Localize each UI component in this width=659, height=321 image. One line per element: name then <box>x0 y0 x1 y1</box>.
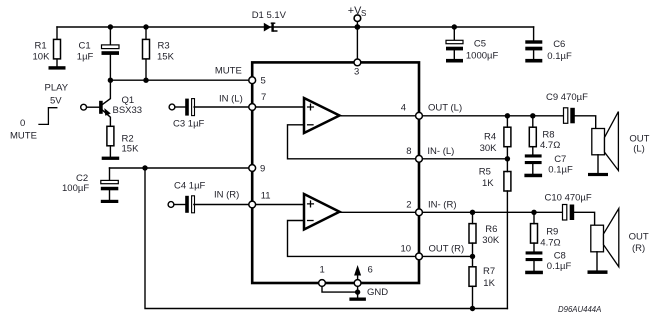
svg-text:PLAY: PLAY <box>45 83 69 94</box>
junction pin9 line <box>142 165 147 170</box>
svg-text:1K: 1K <box>482 178 494 189</box>
svg-text:15K: 15K <box>122 144 140 155</box>
wire op-amp R output to pin2 and IN-(R) line <box>340 211 563 213</box>
capacitor C6 <box>525 27 572 63</box>
transistor Q1 <box>81 80 142 126</box>
svg-text:OUT (L): OUT (L) <box>428 103 462 114</box>
resistor R4 <box>480 116 511 159</box>
input terminal IN (L) <box>169 104 175 110</box>
svg-text:2: 2 <box>406 200 411 211</box>
svg-text:C8: C8 <box>554 251 566 262</box>
wire input R <box>174 204 185 206</box>
op-amp A1 (left channel) <box>304 98 340 133</box>
junction top rail at C5 <box>452 24 457 29</box>
svg-text:7: 7 <box>261 92 266 103</box>
junction gnd node <box>355 289 360 294</box>
wire pins 1,6 to ground <box>322 287 358 298</box>
svg-text:OUT: OUT <box>629 232 649 243</box>
svg-text:(L): (L) <box>633 144 645 155</box>
wire Vs to pin 3 <box>356 27 358 62</box>
svg-text:MUTE: MUTE <box>215 66 242 77</box>
svg-text:10K: 10K <box>33 51 51 62</box>
capacitor C3 <box>173 93 243 129</box>
wire pin9 line <box>110 167 253 169</box>
capacitor C7 <box>524 154 573 177</box>
svg-text:30K: 30K <box>480 143 498 154</box>
resistor R6 <box>469 212 500 256</box>
junction IN-(L) at R4/R5 <box>505 156 510 161</box>
pin 9 <box>249 163 265 174</box>
svg-text:D1 5.1V: D1 5.1V <box>252 10 287 21</box>
svg-text:OUT (R): OUT (R) <box>429 244 465 255</box>
svg-text:R7: R7 <box>483 266 495 277</box>
svg-text:6: 6 <box>368 265 373 276</box>
pin 1 <box>319 265 326 287</box>
svg-text:MUTE: MUTE <box>10 131 37 142</box>
ground <box>349 287 388 301</box>
svg-text:15K: 15K <box>157 51 175 62</box>
svg-text:IN (R): IN (R) <box>214 190 239 201</box>
svg-text:0.1µF: 0.1µF <box>548 165 573 176</box>
svg-text:D96AU444A: D96AU444A <box>558 305 601 314</box>
wire op-amp L feedback <box>288 125 508 159</box>
input terminal IN (R) <box>168 202 174 208</box>
junction bottom rail at R7 <box>470 306 475 311</box>
play/mute waveform <box>10 83 69 142</box>
svg-text:R9: R9 <box>546 227 558 238</box>
junction mute line at Q1 <box>108 78 113 83</box>
wire C3 to pin7 <box>194 106 304 108</box>
capacitor C1 <box>77 27 119 80</box>
svg-text:1000µF: 1000µF <box>466 50 499 61</box>
svg-text:R5: R5 <box>479 167 491 178</box>
junction top rail at C1 <box>108 24 113 29</box>
svg-text:C6: C6 <box>553 39 565 50</box>
svg-text:R8: R8 <box>542 130 554 141</box>
junction OUT(L) at R4 <box>505 113 510 118</box>
svg-text:4.7Ω: 4.7Ω <box>540 140 560 151</box>
junction top rail at R3 <box>143 24 148 29</box>
svg-text:1: 1 <box>320 265 325 276</box>
svg-text:8: 8 <box>406 146 411 157</box>
svg-text:11: 11 <box>261 190 271 201</box>
wire top supply rail <box>57 26 534 28</box>
svg-text:IN- (L): IN- (L) <box>427 146 454 157</box>
junction OUT(R) at R6/R7 <box>470 254 475 259</box>
svg-text:R6: R6 <box>485 224 497 235</box>
pin 2 <box>406 200 456 216</box>
resistor R9 <box>531 212 561 251</box>
junction OUT(L) at R8 <box>530 113 535 118</box>
svg-text:C1: C1 <box>79 41 91 52</box>
resistor R5 <box>479 159 511 309</box>
svg-text:100µF: 100µF <box>62 183 89 194</box>
svg-text:GND: GND <box>367 287 388 298</box>
wire C4 to pin11 <box>194 204 304 206</box>
pin 4 <box>401 103 462 120</box>
pin 10 <box>401 244 465 260</box>
junction mute line at R3 <box>143 78 148 83</box>
pin 7 <box>249 92 266 110</box>
svg-text:IN- (R): IN- (R) <box>428 200 457 211</box>
svg-text:C10 470µF: C10 470µF <box>545 193 592 204</box>
capacitor C10 <box>545 193 592 221</box>
svg-text:BSX33: BSX33 <box>113 105 143 116</box>
svg-text:C4 1µF: C4 1µF <box>174 181 206 192</box>
resistor R8 <box>529 116 560 155</box>
capacitor C2 <box>62 168 118 203</box>
svg-text:S: S <box>361 9 366 18</box>
svg-text:10: 10 <box>401 244 412 255</box>
junction IN-(R) at R6 <box>470 210 475 215</box>
svg-text:0.1µF: 0.1µF <box>547 261 572 272</box>
svg-text:3: 3 <box>354 66 359 77</box>
svg-text:30K: 30K <box>482 235 500 246</box>
wire op-amp R feedback to pin10 and OUT(R) line <box>288 221 473 257</box>
svg-text:R3: R3 <box>158 41 170 52</box>
resistor R1 <box>33 27 66 70</box>
svg-text:IN (L): IN (L) <box>219 93 243 104</box>
pin 6 <box>354 265 373 287</box>
+Vs terminal <box>348 5 367 27</box>
svg-text:9: 9 <box>260 163 265 174</box>
pin 11 <box>249 190 271 208</box>
wire MUTE line <box>110 79 252 81</box>
svg-text:C3 1µF: C3 1µF <box>173 118 205 129</box>
junction top rail at Vs <box>355 24 361 30</box>
wire op-amp L output to pin4 and OUT(L) line <box>340 115 564 117</box>
pin 3 <box>354 59 361 77</box>
op-amp A2 (right channel) <box>304 194 340 230</box>
resistor R3 <box>143 27 175 80</box>
zener diode D1 <box>252 10 287 32</box>
wire C2 node to bottom rail <box>145 168 507 309</box>
svg-text:1µF: 1µF <box>77 51 94 62</box>
resistor R2 <box>102 126 139 160</box>
capacitor C5 <box>446 27 499 63</box>
pin 5 <box>215 66 266 87</box>
svg-text:+V: +V <box>348 5 362 17</box>
svg-text:R1: R1 <box>35 41 47 52</box>
capacitor C9 <box>546 92 588 123</box>
junction IN-(R) at R9 <box>531 210 536 215</box>
svg-text:1K: 1K <box>483 278 495 289</box>
svg-text:0: 0 <box>20 118 25 129</box>
svg-text:4.7Ω: 4.7Ω <box>540 238 560 249</box>
wire C10 to speaker R <box>574 212 594 225</box>
pin 8 <box>406 146 454 162</box>
speaker OUT (R) <box>588 209 649 274</box>
svg-text:4: 4 <box>401 103 406 114</box>
svg-text:5V: 5V <box>50 96 62 107</box>
svg-text:(R): (R) <box>632 243 645 254</box>
speaker OUT (L) <box>588 112 650 176</box>
svg-text:C5: C5 <box>474 38 486 49</box>
svg-text:5: 5 <box>261 76 266 87</box>
svg-text:0.1µF: 0.1µF <box>547 51 572 62</box>
wire input L <box>175 106 185 108</box>
capacitor C4 <box>174 181 239 213</box>
resistor R7 <box>469 256 496 308</box>
IC body U1 <box>252 62 419 283</box>
wire C9 to speaker L <box>575 116 596 129</box>
capacitor C8 <box>525 251 571 275</box>
gnd arrow at pin 6 <box>354 265 361 279</box>
svg-text:C9 470µF: C9 470µF <box>546 92 588 103</box>
svg-text:R4: R4 <box>484 132 496 143</box>
svg-text:C7: C7 <box>554 154 566 165</box>
